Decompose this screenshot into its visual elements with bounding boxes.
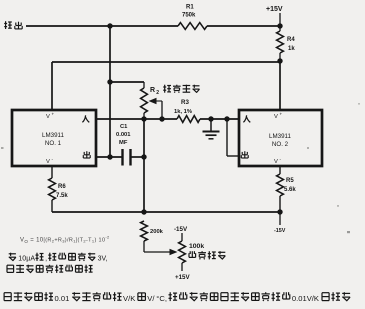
resistor 200k: [141, 221, 178, 255]
svg-text:2: 2: [156, 90, 159, 96]
junction R5 bottom: [277, 209, 282, 214]
resistor R1: [178, 5, 207, 30]
junction R1/+15V: [277, 23, 282, 28]
svg-text:°C,: °C,: [156, 294, 167, 303]
svg-text:0.01V/K: 0.01V/K: [292, 294, 319, 303]
svg-text:V: V: [274, 159, 278, 165]
svg-text:µA: µA: [26, 256, 35, 263]
op-amp U2 LM3911 NO.2: [239, 110, 322, 166]
wire V+ rail: [52, 61, 280, 110]
note line 2: [7, 265, 93, 273]
power +15V top: [266, 6, 283, 26]
resistor R4: [277, 26, 296, 61]
svg-text:LM3911: LM3911: [42, 132, 64, 139]
svg-text:0.001: 0.001: [116, 132, 131, 138]
svg-text:-15V: -15V: [174, 226, 188, 233]
svg-text:1k: 1k: [288, 46, 295, 52]
svg-text:10: 10: [18, 256, 26, 263]
svg-text:+: +: [52, 112, 55, 117]
svg-text:R1: R1: [186, 5, 194, 11]
wire input line: [96, 118, 239, 120]
label zero adjust: [189, 251, 225, 259]
svg-text:V: V: [274, 114, 278, 120]
svg-text:R6: R6: [58, 184, 66, 190]
R2 wiper arrow: [149, 98, 163, 119]
label 100k: [189, 243, 204, 250]
wire output line: [26, 25, 280, 27]
svg-text:R4: R4: [287, 37, 295, 43]
svg-text:R: R: [150, 87, 155, 94]
resistor R3: [174, 99, 200, 122]
svg-text:C1: C1: [120, 124, 128, 130]
formula: [20, 235, 110, 245]
svg-text:100k: 100k: [189, 243, 204, 250]
ground: [203, 119, 220, 139]
resistor R6: [49, 166, 69, 212]
junction wiper: [159, 116, 164, 121]
svg-text:+: +: [280, 112, 283, 117]
wire output vertical: [109, 26, 111, 157]
svg-text:MF: MF: [119, 140, 128, 146]
svg-text:1k, 1%: 1k, 1%: [174, 109, 192, 115]
junction ground node: [208, 116, 213, 121]
svg-text:,: ,: [45, 256, 47, 263]
svg-text:+15V: +15V: [266, 6, 283, 13]
svg-text:7.5k: 7.5k: [56, 193, 68, 199]
svg-text:-15V: -15V: [274, 228, 286, 234]
svg-text:3V,: 3V,: [98, 256, 108, 263]
power -15V pot top: [174, 226, 188, 241]
svg-text:+15V: +15V: [175, 274, 190, 281]
junction IC2 feedback: [224, 116, 229, 121]
potentiometer 100k zero adjust: [179, 241, 186, 271]
junction R2 bottom: [141, 116, 146, 121]
note bottom line: [4, 292, 350, 303]
svg-text:0.01: 0.01: [55, 294, 70, 303]
junction V+ rail right: [277, 58, 282, 63]
svg-text:V/K: V/K: [123, 294, 135, 303]
speck: [1, 103, 360, 233]
node 输出 output label: [4, 21, 22, 29]
wire IC2 output feedback: [227, 119, 239, 156]
junction R2 branch: [107, 79, 112, 84]
op-amp U1 LM3911 NO.1: [12, 110, 96, 166]
junction out/cap: [107, 154, 112, 159]
junction 200k top: [141, 209, 146, 214]
wire feedback vertical: [143, 119, 145, 212]
svg-text:NO. 1: NO. 1: [45, 140, 62, 147]
wire IC1 out: [96, 156, 122, 158]
note line 1: [9, 253, 108, 263]
wire R2 branch: [110, 82, 144, 88]
junction cap right: [141, 154, 146, 159]
svg-text:750k: 750k: [182, 13, 196, 19]
wire feedback line: [52, 211, 280, 213]
power -15V right: [274, 212, 286, 234]
power +15V pot bottom: [175, 274, 190, 281]
capacitor C1: [116, 124, 144, 166]
resistor R5: [277, 166, 297, 212]
svg-text:R3: R3: [181, 99, 189, 106]
svg-text:5.6k: 5.6k: [284, 187, 296, 193]
svg-text:R5: R5: [286, 178, 294, 184]
svg-text:V: V: [46, 159, 50, 165]
svg-text:200k: 200k: [150, 229, 164, 235]
svg-text:V: V: [46, 114, 50, 120]
svg-text:V/: V/: [147, 294, 155, 303]
svg-text:NO. 2: NO. 2: [272, 141, 289, 148]
junction top-left: [107, 23, 112, 28]
potentiometer R2: [141, 88, 148, 119]
label R2 gain adjust: [150, 85, 200, 96]
svg-text:LM3911: LM3911: [269, 133, 291, 140]
